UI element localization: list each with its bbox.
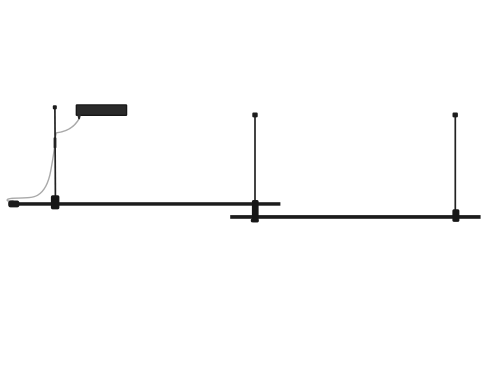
sleeve on left rod xyxy=(54,137,57,148)
middle rod top knob xyxy=(252,113,257,118)
left rod top knob xyxy=(53,105,57,109)
right suspension rod xyxy=(454,117,456,210)
left rod connector block xyxy=(51,195,60,209)
middle connector lower nub xyxy=(251,219,259,223)
middle connector block joining bar 1 and bar 2 xyxy=(252,200,259,222)
middle suspension rod xyxy=(254,117,256,201)
left suspension rod xyxy=(54,108,57,196)
bar 1 left end cap xyxy=(8,201,19,208)
right rod top knob xyxy=(453,113,458,118)
bar 2 (lower light bar) xyxy=(230,215,480,219)
right rod connector block xyxy=(452,209,459,222)
driver box cable nub xyxy=(77,115,81,120)
driver box xyxy=(76,105,126,115)
cable from driver box to left end xyxy=(7,118,79,201)
bar 1 (upper light bar) xyxy=(18,202,281,206)
